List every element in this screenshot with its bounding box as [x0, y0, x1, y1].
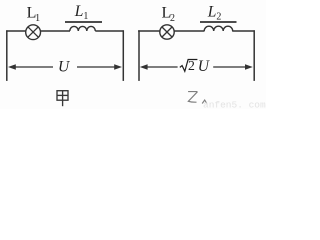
wire lamp-to-coil (circuit 2)	[174, 30, 204, 32]
wire lamp-to-coil (circuit 1)	[41, 30, 71, 32]
wire left vertical (circuit 2)	[138, 30, 140, 81]
label 乙	[188, 92, 207, 104]
radical sign of sqrt(2)	[180, 59, 198, 71]
svg-text:L2: L2	[162, 5, 175, 24]
inductor L1 core bar	[65, 21, 102, 23]
svg-text:U: U	[198, 58, 211, 75]
wire coil-to-right (circuit 1)	[95, 30, 123, 32]
lamp L1	[26, 25, 41, 40]
wire top-left segment (circuit 1)	[6, 30, 26, 32]
wire right vertical (circuit 2)	[253, 30, 255, 81]
wire coil-to-right (circuit 2)	[232, 30, 255, 32]
wire right vertical (circuit 1)	[122, 30, 124, 81]
inductor L2 core bar	[200, 21, 237, 23]
voltage arrow U (circuit 1)	[8, 64, 16, 70]
svg-text:2: 2	[188, 58, 195, 73]
inductor L2 coil	[204, 26, 233, 31]
label 甲	[57, 91, 68, 107]
lamp L2	[160, 25, 174, 39]
wire left vertical (circuit 1)	[6, 30, 8, 81]
svg-text:U: U	[58, 58, 71, 75]
voltage arrow sqrt2 U (circuit 2)	[140, 64, 148, 70]
svg-text:L1: L1	[27, 5, 40, 24]
wire top-left segment (circuit 2)	[138, 30, 160, 32]
svg-text:L2: L2	[207, 3, 222, 22]
svg-text:L1: L1	[74, 3, 89, 22]
svg-text:anfen5. com: anfen5. com	[203, 100, 266, 109]
inductor L1 coil	[70, 26, 96, 31]
